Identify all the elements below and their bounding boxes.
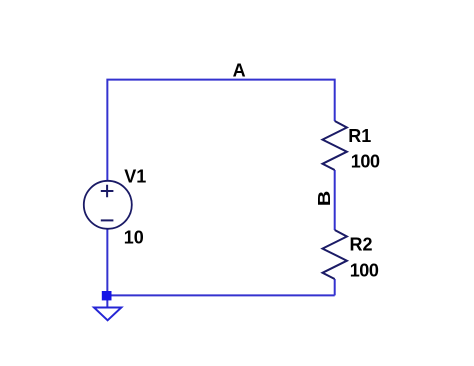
wire: bottom horizontal bbox=[106, 294, 335, 296]
resistor R1 zigzag bbox=[323, 121, 347, 170]
voltage source V1 circle bbox=[84, 181, 132, 229]
svg-text:100: 100 bbox=[350, 261, 379, 281]
junction square at ground node bbox=[102, 291, 112, 300]
V1 minus sign bbox=[101, 219, 114, 221]
wire: right bottom below R2 bbox=[334, 279, 336, 295]
ground symbol triangle bbox=[94, 308, 121, 321]
svg-text:100: 100 bbox=[351, 151, 380, 171]
wire: right middle between R1 and R2 (node B) bbox=[334, 170, 336, 230]
svg-text:R2: R2 bbox=[350, 235, 373, 255]
wire: top from node A corner left to right bbox=[107, 80, 334, 182]
svg-text:R1: R1 bbox=[348, 126, 371, 146]
svg-text:A: A bbox=[233, 60, 246, 80]
wire: left bottom from V1 to ground bbox=[106, 228, 108, 307]
svg-text:10: 10 bbox=[124, 228, 144, 248]
svg-text:B: B bbox=[315, 191, 335, 207]
svg-text:V1: V1 bbox=[124, 166, 146, 186]
V1 plus sign bbox=[101, 185, 114, 197]
resistor R2 zigzag bbox=[323, 230, 347, 279]
